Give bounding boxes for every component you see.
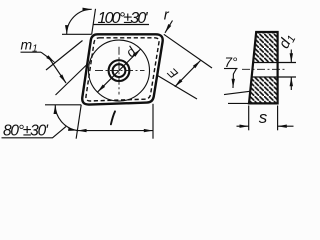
svg-text:s: s (259, 108, 268, 127)
svg-text:80°±30': 80°±30' (3, 122, 49, 139)
svg-text:d1: d1 (276, 31, 299, 52)
svg-text:E: E (165, 65, 181, 81)
svg-text:7°: 7° (225, 55, 239, 70)
svg-text:r: r (164, 7, 170, 24)
